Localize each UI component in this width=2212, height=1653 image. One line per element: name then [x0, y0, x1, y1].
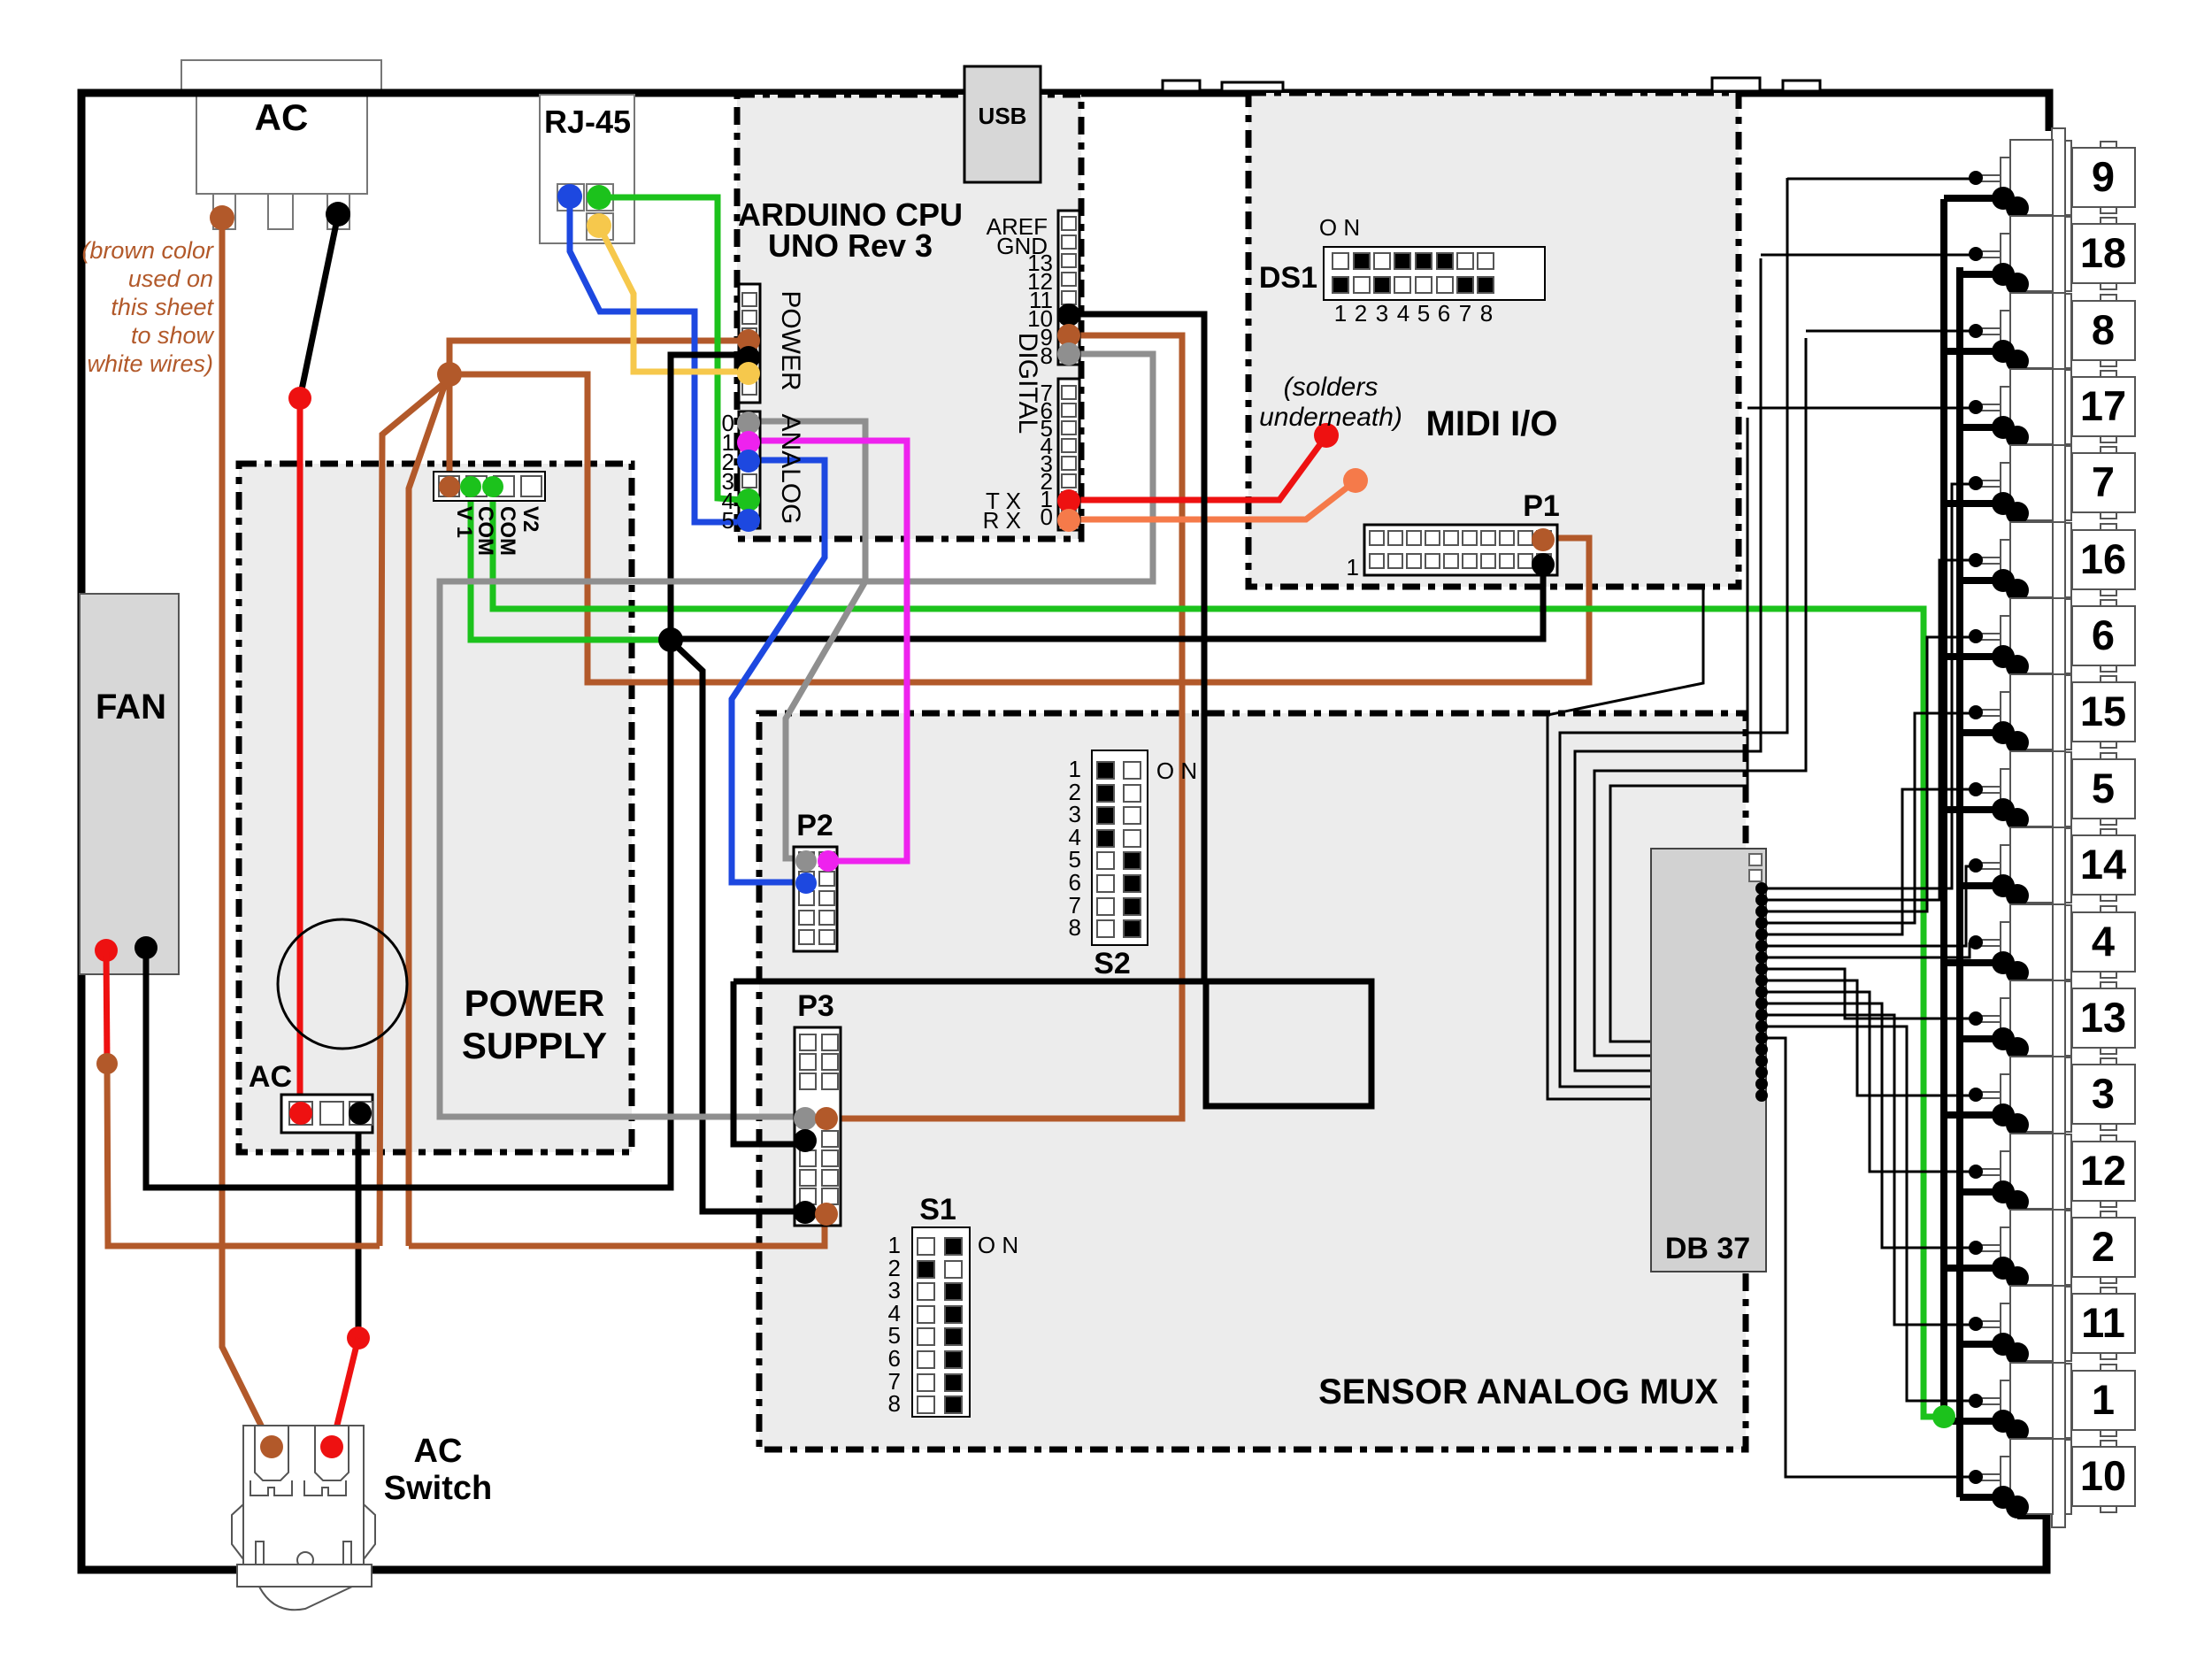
- wire brown FAN common run: [107, 1064, 380, 1246]
- jack J18 signal dot: [1969, 247, 1983, 261]
- pin dot red PS AC: [289, 1102, 312, 1125]
- pin dot red TX1: [1057, 489, 1080, 512]
- jack J7 ground dots: [1992, 492, 2015, 515]
- header P2 box: [794, 847, 837, 951]
- pin dot brown DIGITAL9: [1057, 324, 1080, 347]
- wire DB37 pin 5 to jack feed: [1762, 789, 1970, 934]
- RJ-45 pin square blue: [557, 184, 584, 211]
- svg-text:this sheet: this sheet: [111, 294, 214, 320]
- wire orange RX to MIDI: [1069, 482, 1354, 519]
- wire thick chain jack row 10: [2003, 886, 2017, 896]
- svg-text:POWER: POWER: [465, 982, 605, 1024]
- wire red TX to MIDI: [1069, 437, 1325, 500]
- svg-text:DS1: DS1: [1259, 261, 1317, 295]
- wire thick chain jack row 8: [2003, 733, 2017, 742]
- RJ-45 pin dot blue: [557, 184, 582, 209]
- junction brown below FAN: [96, 1053, 118, 1074]
- jack J2 bottom notch: [2101, 1277, 2116, 1283]
- wire thick chain jack row 7: [2003, 657, 2017, 666]
- jack J2 ground dots: [1992, 1257, 2015, 1280]
- MIDI I/O module box: [1248, 93, 1739, 587]
- wire brown junction up to POWER pin1: [449, 341, 743, 374]
- chassis mounting tab top-right-2: [1783, 81, 1820, 91]
- svg-text:3: 3: [2092, 1070, 2115, 1117]
- jack J9 bottom notch: [2101, 207, 2116, 213]
- svg-text:4: 4: [2092, 918, 2115, 965]
- wire thick chain jack row 18: [2003, 1497, 2017, 1507]
- jack J17 body: [2010, 369, 2053, 444]
- wire green COM3 long run to jack field: [493, 488, 1944, 1417]
- jack J3 pin lines: [1976, 1091, 2001, 1093]
- wire DB37 pin 6 to jack feed: [1762, 866, 1970, 946]
- header POWER box: [739, 284, 760, 403]
- svg-text:O N: O N: [1319, 214, 1360, 241]
- wire thick stub jack row 12: [1960, 1035, 2003, 1042]
- jack J14 left tab: [2001, 845, 2010, 882]
- svg-text:O N: O N: [1156, 757, 1197, 784]
- jack J16 pin lines: [1976, 557, 2001, 558]
- jack J10 rail segment: [2065, 1440, 2071, 1514]
- DB 37 dash squares: [1749, 854, 1762, 865]
- wire thick chain link 3: [2014, 361, 2021, 427]
- svg-text:(solders: (solders: [1284, 373, 1379, 402]
- wire thick stub jack row 16: [1960, 1341, 2003, 1348]
- wire thick chain link 6: [2014, 590, 2021, 657]
- jack J1 number box: [2072, 1371, 2135, 1430]
- jack J7 top notch: [2101, 447, 2116, 453]
- svg-text:13: 13: [2080, 994, 2126, 1041]
- jack J14 bottom notch: [2101, 895, 2116, 901]
- jack J18 left tab: [2001, 234, 2010, 271]
- junction black common: [658, 627, 683, 652]
- jack J5 pin lines: [1976, 786, 2001, 788]
- wire brown junction to P1 long run: [449, 374, 1589, 682]
- jack J13 rail segment: [2065, 981, 2071, 1056]
- wire thick chain jack row 5: [2003, 504, 2017, 513]
- svg-text:DIGITAL: DIGITAL: [1013, 333, 1042, 434]
- svg-text:(brown color: (brown color: [81, 237, 214, 264]
- svg-text:S2: S2: [1094, 947, 1131, 980]
- wire thick chain jack row 14: [2003, 1192, 2017, 1202]
- wire DB37 pin 8 to jack feed: [1762, 969, 1970, 1019]
- jack J8 body: [2010, 293, 2053, 368]
- jack J10 body: [2010, 1439, 2053, 1514]
- svg-text:AC: AC: [249, 1060, 292, 1094]
- jack J1 rail segment: [2065, 1364, 2071, 1438]
- jack J7 left tab: [2001, 463, 2010, 500]
- header DIGITAL lower box: [1058, 379, 1079, 530]
- wire brown junction down to V1 pin1: [447, 374, 453, 485]
- wire thick chain link 1: [2014, 208, 2021, 274]
- jack J2 left tab: [2001, 1227, 2010, 1265]
- jack J18 pin lines: [1976, 250, 2001, 252]
- svg-text:RJ-45: RJ-45: [544, 104, 631, 140]
- jack J3 left tab: [2001, 1074, 2010, 1111]
- jack J16 signal dot: [1969, 553, 1983, 567]
- FAN red terminal: [95, 939, 118, 962]
- jack J14 top notch: [2101, 829, 2116, 835]
- AC switch body: [243, 1426, 364, 1565]
- wire thick stub jack row 4: [1960, 424, 2003, 431]
- svg-text:AC: AC: [255, 96, 309, 138]
- pin dot grey DIGITAL8: [1057, 342, 1080, 365]
- wire blue RJ45 to ANALOG5: [570, 196, 743, 522]
- wire DB37 pin 1 to jack feed: [1762, 484, 1970, 888]
- AC inlet pin 2: [268, 194, 293, 229]
- pin dot brown P3: [815, 1107, 838, 1130]
- jack J12 signal dot: [1969, 1165, 1983, 1179]
- jack J11 ground dots: [1992, 1333, 2015, 1356]
- jack J11 left tab: [2001, 1303, 2010, 1341]
- wire black routing box around S1: [733, 981, 1371, 1106]
- svg-text:18: 18: [2080, 229, 2126, 276]
- svg-text:1: 1: [2092, 1376, 2115, 1423]
- jack J15 signal dot: [1969, 705, 1983, 719]
- svg-text:O N: O N: [978, 1232, 1018, 1258]
- RJ-45 pin dot green: [587, 185, 611, 210]
- wire black AC inlet to red junction: [300, 215, 338, 398]
- jack J3 ground dots: [1992, 1103, 2015, 1126]
- svg-text:8: 8: [1069, 914, 1081, 941]
- jack J5 rail segment: [2065, 752, 2071, 826]
- DIP switch S2 box: [1092, 750, 1148, 945]
- jack J15 rail segment: [2065, 675, 2071, 750]
- chassis border over AC inlet: [159, 89, 416, 97]
- jack J1 bottom notch: [2101, 1430, 2116, 1436]
- jack J2 rail segment: [2065, 1211, 2071, 1285]
- wire thick chain jack row 9: [2003, 810, 2017, 819]
- jack J14 pin lines: [1976, 862, 2001, 864]
- wire thick chain link 15: [2014, 1278, 2021, 1344]
- jack J2 number box: [2072, 1218, 2135, 1277]
- svg-text:P3: P3: [797, 989, 834, 1023]
- jack J6 body: [2010, 598, 2053, 673]
- jack J9 top notch: [2101, 142, 2116, 148]
- jack J15 number box: [2072, 682, 2135, 742]
- wire thick stub jack row 2: [1960, 271, 2003, 278]
- svg-text:used on: used on: [128, 265, 213, 292]
- wire thick black jack bus A: [1940, 199, 1947, 1417]
- jack J11 number box: [2072, 1294, 2135, 1353]
- wire thick chain jack row 15: [2003, 1268, 2017, 1278]
- jack J9 number box: [2072, 148, 2135, 207]
- jack J14 rail segment: [2065, 828, 2071, 903]
- jack J8 top notch: [2101, 295, 2116, 301]
- jack J7 bottom notch: [2101, 512, 2116, 519]
- RJ-45 pin square green: [587, 184, 613, 211]
- jack J17 bottom notch: [2101, 436, 2116, 442]
- pin dot magenta ANALOG1: [737, 431, 760, 454]
- jack J17 left tab: [2001, 387, 2010, 424]
- wire thick chain jack row 16: [2003, 1344, 2017, 1354]
- jack J7 signal dot: [1969, 476, 1983, 490]
- wire yellow RJ45 to POWER pin5: [599, 226, 743, 372]
- jack J12 number box: [2072, 1142, 2135, 1201]
- jack J11 top notch: [2101, 1288, 2116, 1294]
- jack J18 body: [2010, 216, 2053, 291]
- pin dot green COM2: [460, 476, 481, 497]
- jack J13 pin lines: [1976, 1015, 2001, 1017]
- jack J2 top notch: [2101, 1211, 2116, 1218]
- wire thin jack 17 feed: [1747, 407, 1970, 410]
- wire brown AC inlet down to AC switch: [222, 220, 272, 1447]
- svg-text:8: 8: [2092, 306, 2115, 353]
- svg-text:R X: R X: [983, 507, 1021, 534]
- wire black jack trunk bracket 3: [1575, 258, 1761, 1071]
- jack J11 signal dot: [1969, 1317, 1983, 1331]
- wire thick stub jack row 5: [1944, 500, 2003, 507]
- svg-text:FAN: FAN: [96, 688, 166, 727]
- jack J10 top notch: [2101, 1441, 2116, 1447]
- svg-text:7: 7: [1459, 300, 1471, 327]
- jack J6 left tab: [2001, 616, 2010, 653]
- jack J14 body: [2010, 827, 2053, 903]
- wire thick chain jack row 1: [2003, 198, 2017, 208]
- jack J9 pin lines: [1976, 174, 2001, 176]
- header V1/COM/COM/V2 box: [434, 472, 545, 501]
- AC switch notches: [250, 1480, 292, 1495]
- header ANALOG box: [739, 411, 760, 528]
- jack J8 bottom notch: [2101, 360, 2116, 366]
- svg-text:V 1: V 1: [452, 506, 476, 538]
- svg-text:to show: to show: [131, 322, 215, 349]
- jack J18 bottom notch: [2101, 283, 2116, 289]
- svg-text:4: 4: [1397, 300, 1409, 327]
- jack J3 signal dot: [1969, 1088, 1983, 1102]
- jack J11 body: [2010, 1286, 2053, 1361]
- jack J14 ground dots: [1992, 874, 2015, 897]
- pin dot green ANALOG4: [737, 488, 760, 511]
- jack J7 pin lines: [1976, 480, 2001, 481]
- jack J17 pin lines: [1976, 404, 2001, 405]
- jack J15 bottom notch: [2101, 742, 2116, 748]
- jack J11 pin lines: [1976, 1320, 2001, 1322]
- RJ-45 pin dot yellow: [587, 213, 611, 238]
- AC switch circle: [297, 1552, 313, 1568]
- jack J13 bottom notch: [2101, 1048, 2116, 1054]
- jack J3 body: [2010, 1057, 2053, 1132]
- svg-text:7: 7: [2092, 458, 2115, 505]
- FAN box: [80, 594, 179, 974]
- wire thick stub jack row 1: [1944, 195, 2003, 202]
- svg-text:UNO Rev 3: UNO Rev 3: [768, 227, 933, 264]
- jack J6 signal dot: [1969, 629, 1983, 643]
- jack J12 bottom notch: [2101, 1201, 2116, 1207]
- jack J9 signal dot: [1969, 171, 1983, 185]
- svg-text:DB 37: DB 37: [1665, 1232, 1750, 1265]
- wire red FAN to brown junction dot: [106, 950, 107, 1062]
- wire black jack trunk bracket 5: [1610, 418, 1747, 1042]
- jack J2 pin lines: [1976, 1244, 2001, 1246]
- AC inlet pin 3: [327, 194, 349, 229]
- wire DB37 pin 3 to jack feed: [1762, 637, 1970, 911]
- wire DB37 pin 13 to jack feed: [1762, 1026, 1970, 1401]
- jack J16 number box: [2072, 530, 2135, 589]
- AC switch side wings: [232, 1504, 243, 1559]
- wire blue ANALOG2 to P2: [732, 460, 825, 882]
- svg-text:AC: AC: [414, 1433, 463, 1470]
- pin dot black P3 mid: [794, 1129, 817, 1152]
- jack J2 body: [2010, 1210, 2053, 1285]
- jack J8 ground dots: [1992, 340, 2015, 363]
- jack J18 top notch: [2101, 218, 2116, 224]
- AC switch terminal left: [255, 1426, 288, 1480]
- pin dot black POWER2: [737, 346, 760, 369]
- wire thick chain jack row 2: [2003, 274, 2017, 284]
- pin dot magenta P2: [818, 850, 839, 872]
- jack J9 body: [2010, 140, 2053, 215]
- svg-text:10: 10: [2080, 1452, 2126, 1499]
- pin dot brown V1: [439, 476, 460, 497]
- pin dot orange RX0: [1057, 509, 1080, 532]
- wire thick chain jack row 4: [2003, 427, 2017, 437]
- wire brown right segment to P3 pin: [409, 1216, 825, 1246]
- wire thick chain jack row 6: [2003, 580, 2017, 590]
- svg-text:P2: P2: [796, 809, 833, 842]
- AC inlet pin dot black: [326, 202, 350, 227]
- jack J5 signal dot: [1969, 782, 1983, 796]
- jack J17 top notch: [2101, 371, 2116, 377]
- jack J4 body: [2010, 904, 2053, 980]
- jack J17 number box: [2072, 377, 2135, 436]
- svg-text:6: 6: [2092, 611, 2115, 658]
- POWER SUPPLY module box: [239, 464, 632, 1152]
- jack J10 ground dots: [1992, 1486, 2015, 1509]
- jack J5 ground dots: [1992, 798, 2015, 821]
- jack J10 pin lines: [1976, 1473, 2001, 1475]
- jack J6 ground dots: [1992, 645, 2015, 668]
- wire thick stub jack row 15: [1944, 1265, 2003, 1272]
- jack J15 pin lines: [1976, 709, 2001, 711]
- wire thick stub jack row 9: [1944, 806, 2003, 813]
- AC inlet pin dot brown: [210, 205, 234, 230]
- jack J16 top notch: [2101, 524, 2116, 530]
- AC switch inner pins: [256, 1542, 264, 1565]
- jack J7 number box: [2072, 453, 2135, 512]
- svg-text:5: 5: [2092, 765, 2115, 811]
- svg-text:P1: P1: [1523, 489, 1560, 523]
- jack J4 pin lines: [1976, 939, 2001, 941]
- wire DB37 pin 7 to jack feed: [1762, 942, 1970, 957]
- SENSOR ANALOG MUX module box: [759, 713, 1746, 1449]
- pin dot yellow POWER3: [737, 362, 760, 385]
- AC switch base plate: [237, 1565, 372, 1587]
- svg-text:COM: COM: [495, 506, 519, 556]
- junction green at jack 1: [1932, 1405, 1955, 1428]
- wire thin jack 9 feed: [1787, 178, 1970, 181]
- jack J1 body: [2010, 1363, 2053, 1438]
- jack J10 bottom notch: [2101, 1506, 2116, 1512]
- jack J14 signal dot: [1969, 858, 1983, 873]
- jack J12 rail segment: [2065, 1134, 2071, 1209]
- jack J15 ground dots: [1992, 721, 2015, 744]
- svg-text:17: 17: [2080, 382, 2126, 429]
- junction red at AC switch: [347, 1326, 370, 1349]
- jack J17 ground dots: [1992, 416, 2015, 439]
- wire thick chain jack row 3: [2003, 351, 2017, 361]
- jack J3 number box: [2072, 1065, 2135, 1124]
- DIP switch DS1 box: [1324, 247, 1545, 300]
- jack J17 rail segment: [2065, 370, 2071, 444]
- jack J13 number box: [2072, 988, 2135, 1048]
- wire thick stub jack row 7: [1944, 653, 2003, 660]
- wire DB37 pin 10 to jack feed: [1762, 992, 1970, 1172]
- jack J17 signal dot: [1969, 400, 1983, 414]
- jack J10 left tab: [2001, 1457, 2010, 1494]
- jack J16 bottom notch: [2101, 589, 2116, 596]
- wire thick chain link 16: [2014, 1354, 2021, 1421]
- wire black routing to P3 mid pin: [733, 981, 802, 1144]
- jack J18 rail segment: [2065, 217, 2071, 291]
- wire thin jack 8 feed: [1806, 330, 1970, 333]
- svg-text:6: 6: [1438, 300, 1450, 327]
- jack J14 number box: [2072, 835, 2135, 895]
- jack J1 signal dot: [1969, 1394, 1983, 1408]
- wire thick chain link 2: [2014, 284, 2021, 351]
- jack J1 ground dots: [1992, 1410, 2015, 1433]
- jack J6 rail segment: [2065, 599, 2071, 673]
- header P3 box: [795, 1027, 841, 1226]
- AC inlet pin 1: [213, 194, 235, 229]
- jack J11 bottom notch: [2101, 1353, 2116, 1359]
- jack J2 signal dot: [1969, 1241, 1983, 1255]
- wire black POWER pin2 to junction: [671, 355, 743, 639]
- wire thick chain link 4: [2014, 437, 2021, 504]
- jack J3 top notch: [2101, 1058, 2116, 1065]
- jack J18 number box: [2072, 224, 2135, 283]
- pin dot grey P3: [794, 1107, 817, 1130]
- AC switch terminal dots: [260, 1435, 283, 1458]
- wire thick chain link 7: [2014, 666, 2021, 733]
- jack J15 body: [2010, 674, 2053, 750]
- jack J18 ground dots: [1992, 263, 2015, 286]
- wire thick chain link 12: [2014, 1049, 2021, 1115]
- wire DB37 pin 12 to jack feed: [1762, 1015, 1970, 1325]
- wire green COM2 to black junction: [471, 488, 665, 640]
- jack J5 bottom notch: [2101, 819, 2116, 825]
- DIP switch S1 box: [912, 1227, 970, 1417]
- wire black jack trunk bracket 2: [1560, 178, 1787, 1087]
- svg-text:S1: S1: [919, 1193, 956, 1226]
- pin dot black P1: [1532, 553, 1555, 576]
- jack J16 left tab: [2001, 540, 2010, 577]
- wire DB37 pin 2 to jack feed: [1762, 560, 1970, 900]
- wire black DIGITAL10 to routing box: [1069, 314, 1204, 981]
- svg-text:5: 5: [722, 507, 734, 534]
- svg-text:3: 3: [1376, 300, 1388, 327]
- svg-text:SUPPLY: SUPPLY: [462, 1025, 607, 1066]
- jack J9 left tab: [2001, 158, 2010, 195]
- junction red: [288, 387, 311, 410]
- FAN black terminal: [134, 936, 157, 959]
- jack J4 left tab: [2001, 922, 2010, 959]
- jack J8 number box: [2072, 301, 2135, 360]
- wire thick stub jack row 8: [1960, 729, 2003, 736]
- jack J10 signal dot: [1969, 1470, 1983, 1484]
- jack J13 top notch: [2101, 982, 2116, 988]
- jack J4 ground dots: [1992, 951, 2015, 974]
- jack J16 rail segment: [2065, 523, 2071, 597]
- chassis mounting tab top-right-1: [1712, 78, 1760, 91]
- wire thick chain link 10: [2014, 896, 2021, 963]
- jack J4 number box: [2072, 912, 2135, 972]
- jack J12 pin lines: [1976, 1168, 2001, 1170]
- jack J12 top notch: [2101, 1135, 2116, 1142]
- wire thick chain link 9: [2014, 819, 2021, 886]
- wire thick black jack bus B: [1956, 267, 1963, 1497]
- pin dot grey ANALOG0: [737, 411, 760, 434]
- wire grey DIGITAL8 around POWER SUPPLY to P3: [440, 354, 1153, 1117]
